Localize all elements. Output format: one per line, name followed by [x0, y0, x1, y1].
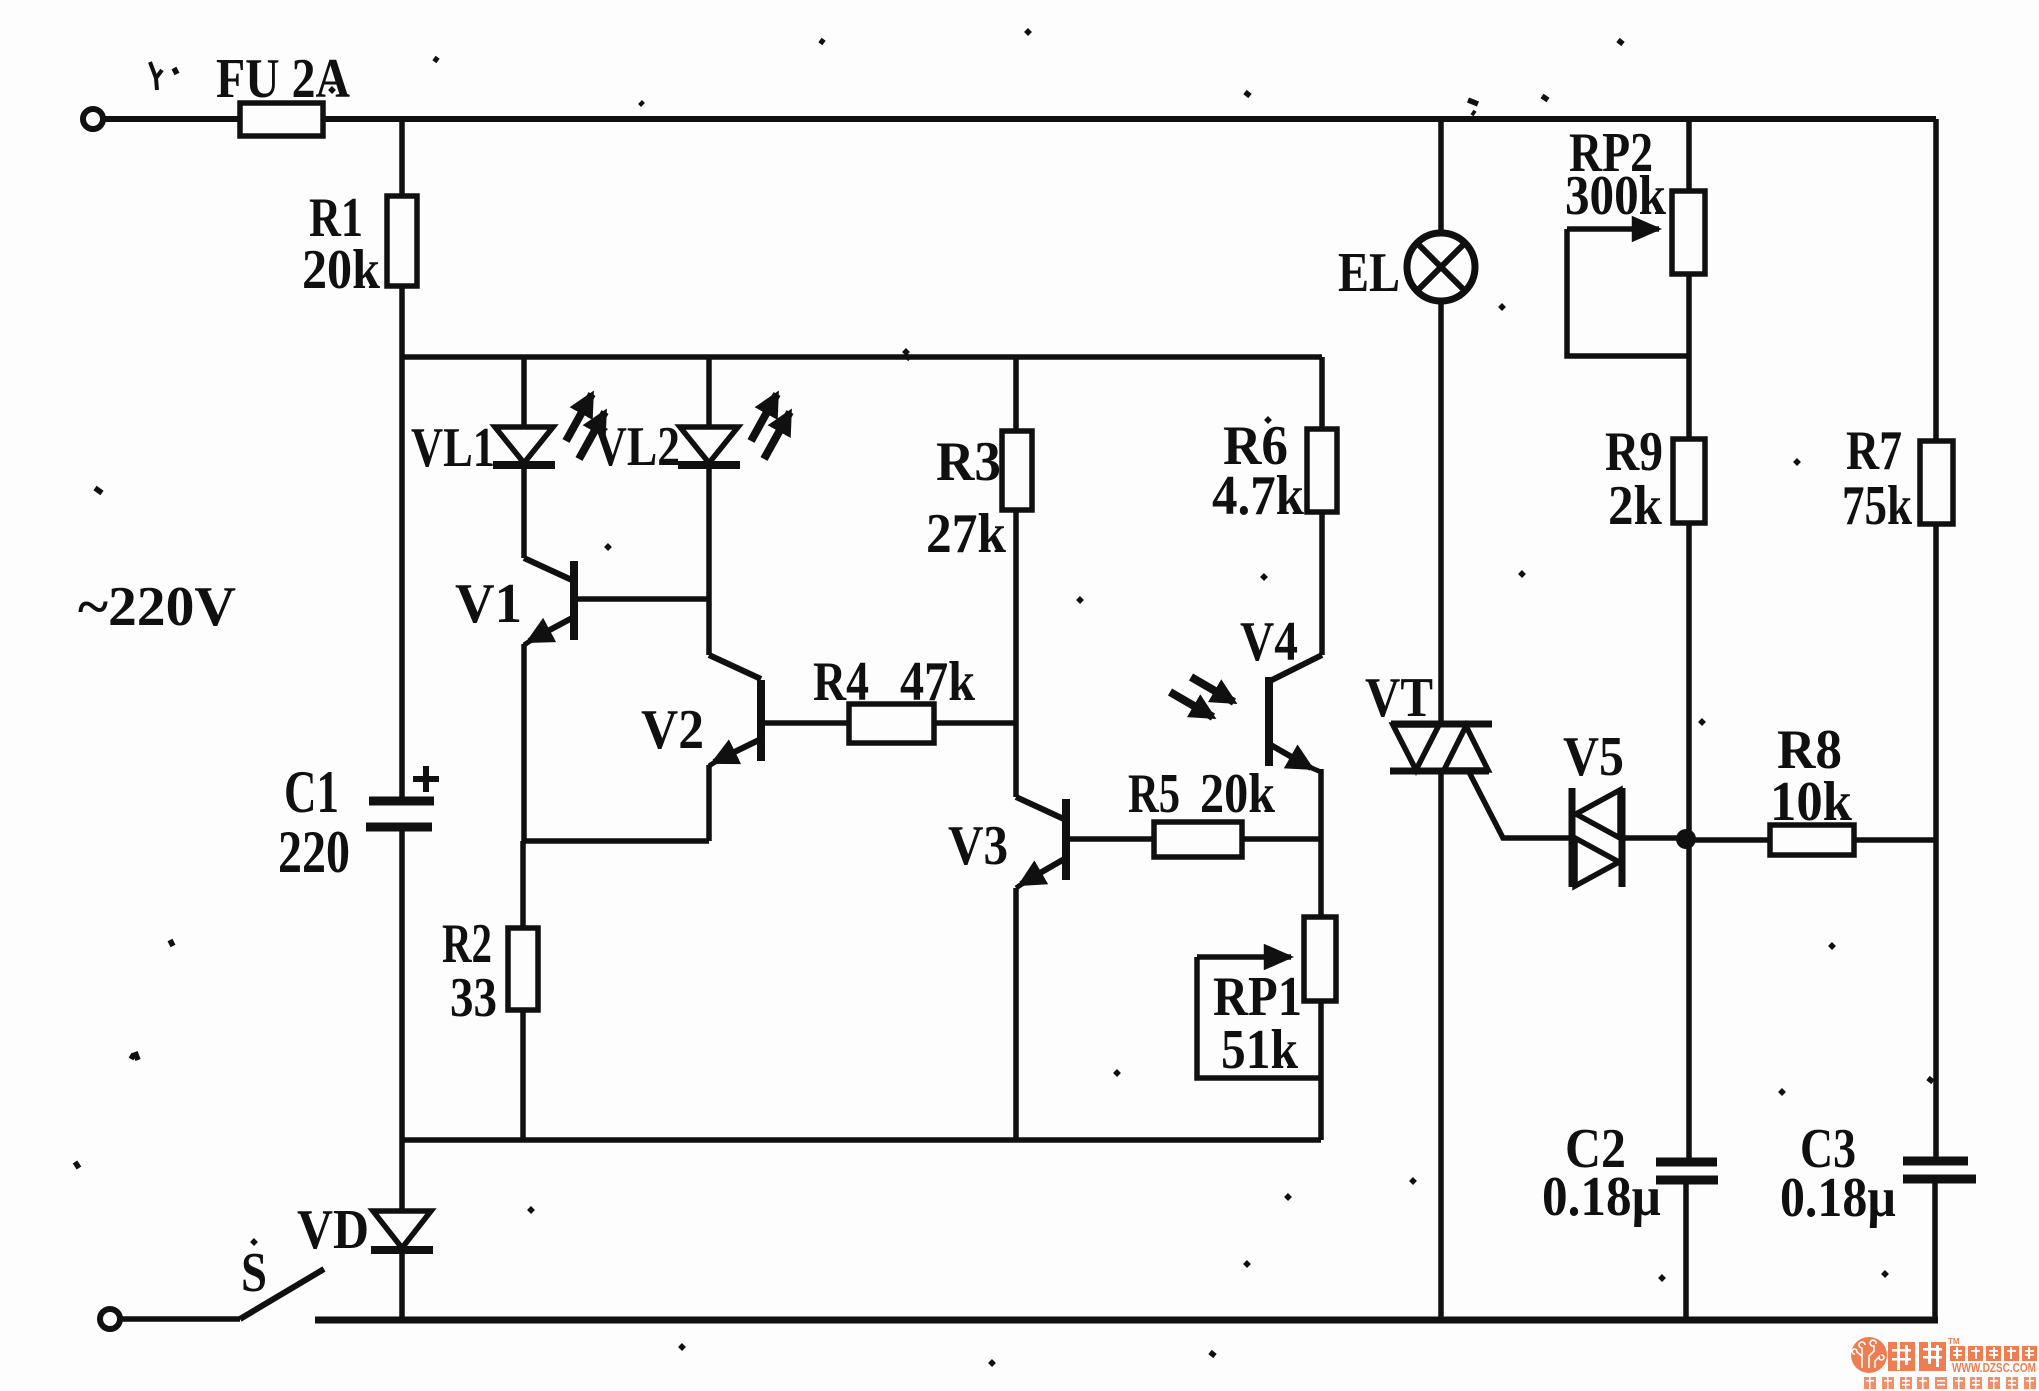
svg-text:R5: R5 — [1128, 763, 1180, 825]
LED VL2 — [680, 427, 738, 463]
wire: VL2 cathode to V2 collector — [706, 465, 712, 655]
resistor R2 33 — [520, 841, 526, 928]
wire: R3 top lead — [1013, 357, 1019, 431]
svg-text:R9: R9 — [1605, 421, 1663, 483]
svg-text:VT: VT — [1365, 667, 1433, 729]
svg-text:33: 33 — [450, 967, 497, 1029]
potentiometer RP2 300k — [1672, 191, 1705, 274]
resistor R4 47k — [849, 704, 934, 743]
svg-text:~220V: ~220V — [78, 576, 236, 638]
wire: EL lamp top lead — [1438, 119, 1444, 233]
wire: inner bottom rail — [402, 1137, 1321, 1143]
wire: EL to VT — [1438, 301, 1444, 724]
transistor V4 (photo) — [1270, 655, 1322, 681]
svg-text:10k: 10k — [1770, 771, 1853, 833]
svg-text:R3: R3 — [936, 431, 1001, 493]
potentiometer RP1 51k — [1304, 917, 1336, 1001]
svg-text:220: 220 — [278, 819, 350, 885]
svg-text:WWW.DZSC.COM: WWW.DZSC.COM — [1952, 1361, 2036, 1375]
diode VD — [373, 1211, 431, 1248]
switch S (open arm) — [240, 1269, 324, 1319]
wire: C3 bottom to bottom rail — [1932, 1183, 1938, 1320]
wire: left bus R1 bottom to C1 — [399, 286, 405, 798]
wire: R3 bottom to V3 collector — [1013, 510, 1019, 797]
diac V5 — [1569, 788, 1576, 887]
wire: R1 top lead — [399, 119, 405, 196]
wire: VL1 anode lead — [521, 357, 527, 427]
wire: VD cathode to bottom rail — [399, 1250, 405, 1320]
light arrows VL1 — [566, 394, 592, 441]
svg-text:300k: 300k — [1565, 165, 1667, 227]
wire: C2 bottom to bottom rail — [1683, 1184, 1689, 1320]
svg-text:EL: EL — [1338, 242, 1400, 304]
terminal: bottom-left input terminal — [100, 1309, 120, 1329]
wire: R6 top lead — [1319, 357, 1325, 429]
resistor R6 4.7k — [1307, 429, 1337, 512]
resistor R5 20k — [1154, 822, 1242, 857]
wire: VL1 cathode to V1 collector — [521, 465, 527, 558]
capacitor C1 220 (polarized) — [369, 797, 434, 806]
resistor R3 27k — [1002, 431, 1032, 510]
resistor R8 10k — [1770, 825, 1854, 855]
wire: V2 emitter down — [706, 765, 712, 841]
fuse FU 2A — [240, 103, 323, 136]
wire: inner top rail — [402, 354, 1322, 360]
svg-text:V3: V3 — [948, 815, 1008, 877]
svg-text:TM: TM — [1948, 1337, 1960, 1346]
svg-text:R7: R7 — [1846, 420, 1902, 482]
svg-text:27k: 27k — [926, 503, 1007, 565]
svg-text:0.18µ: 0.18µ — [1542, 1166, 1661, 1228]
svg-text:20k: 20k — [1200, 763, 1276, 825]
svg-text:51k: 51k — [1221, 1019, 1299, 1081]
wire: emitter join rail V1-V2 — [524, 838, 709, 844]
wire: switch feed — [121, 1316, 240, 1322]
capacitor C3 0.18u — [1903, 1157, 1968, 1166]
wire: diac output to node — [1622, 835, 1686, 841]
resistor R1 20k — [387, 196, 417, 286]
svg-text:C1: C1 — [284, 759, 339, 825]
svg-text:S: S — [241, 1242, 267, 1304]
resistor R9 2k — [1673, 439, 1705, 523]
wire: RP2 bottom to R9 — [1686, 274, 1692, 439]
LED VL1 — [495, 427, 553, 463]
transistor V1 — [524, 558, 574, 581]
svg-text:0.18µ: 0.18µ — [1780, 1167, 1896, 1229]
svg-text:47k: 47k — [900, 651, 976, 713]
lamp EL — [1407, 233, 1475, 301]
svg-text:20k: 20k — [302, 239, 381, 301]
transistor V3 — [1016, 797, 1066, 820]
svg-text:VL1: VL1 — [411, 417, 495, 479]
svg-text:4.7k: 4.7k — [1212, 465, 1305, 527]
wire: VL2 anode lead — [706, 357, 712, 427]
svg-text:R4: R4 — [813, 651, 869, 713]
node: gate network junction — [1676, 829, 1696, 849]
wire: right rail down to R7 — [1933, 119, 1939, 441]
svg-text:VD: VD — [297, 1199, 369, 1261]
wire: left bus C1 bottom to VD — [399, 831, 405, 1209]
terminal: top-left input terminal — [83, 109, 103, 129]
svg-text:75k: 75k — [1842, 475, 1913, 537]
watermark logo — [1851, 1337, 2037, 1389]
resistor R7 75k — [1920, 441, 1953, 524]
svg-text:V5: V5 — [1563, 726, 1624, 788]
wire: RP2 top lead — [1686, 119, 1692, 191]
wire: VT bottom to bottom rail — [1438, 771, 1444, 1320]
wire: top horizontal supply rail — [104, 116, 1936, 122]
wire: V1 emitter down — [521, 644, 527, 841]
light arrows V4 — [1170, 692, 1213, 717]
wire: R7 bottom through R8 node to C3 — [1933, 524, 1939, 1157]
wire: V3 emitter down — [1013, 888, 1019, 1140]
stray mark (scan artifact near FU) — [150, 62, 162, 90]
wire: RP1 bottom lead — [1318, 1001, 1324, 1140]
wire: VT gate — [1469, 772, 1572, 838]
wire: R6 bottom to V4 collector — [1319, 512, 1325, 655]
wire: R9 bottom through node to C2 — [1686, 523, 1692, 1158]
wire: node to R8 — [1686, 837, 1770, 843]
svg-text:FU 2A: FU 2A — [216, 48, 350, 110]
light arrows VL2 — [751, 394, 777, 441]
svg-text:V4: V4 — [1240, 611, 1298, 673]
capacitor C2 0.18u — [1656, 1158, 1717, 1167]
wire: V4 emitter down through R5 node — [1318, 769, 1324, 917]
svg-text:R2: R2 — [442, 913, 492, 975]
svg-text:V2: V2 — [641, 699, 704, 761]
svg-text:2k: 2k — [1608, 475, 1663, 537]
wire: bottom rail — [315, 1317, 1938, 1324]
svg-text:VL2: VL2 — [594, 416, 680, 478]
node: junction of left bus with inner top rail — [402, 354, 403, 360]
svg-text:V1: V1 — [455, 573, 522, 635]
transistor V2 — [709, 655, 761, 679]
